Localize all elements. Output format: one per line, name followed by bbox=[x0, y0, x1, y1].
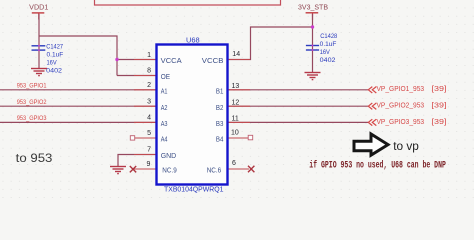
pin names right bbox=[202, 56, 224, 174]
svg-text:to 953: to 953 bbox=[16, 151, 53, 165]
svg-text:A1: A1 bbox=[161, 87, 168, 96]
svg-text:B3: B3 bbox=[216, 119, 224, 128]
off-page connector chevrons VP_GPIO3_953 bbox=[368, 119, 376, 125]
svg-text:B2: B2 bbox=[216, 103, 224, 112]
svg-text:8: 8 bbox=[147, 68, 151, 75]
pin 6 no-connect stub bbox=[228, 166, 255, 172]
ground GND2 bbox=[305, 73, 321, 80]
svg-text:13: 13 bbox=[232, 83, 240, 90]
wire: to pin 8 bbox=[117, 75, 157, 77]
svg-text:TXB0104QPWRQ1: TXB0104QPWRQ1 bbox=[164, 187, 224, 194]
svg-text:0402: 0402 bbox=[320, 57, 336, 64]
wire: 3V3_STB to U68 pin14 bbox=[228, 27, 313, 60]
svg-text:16V: 16V bbox=[320, 49, 331, 56]
wire: pin 7 to ground bbox=[118, 155, 157, 167]
svg-text:B4: B4 bbox=[216, 134, 224, 143]
value labels C1427 bbox=[46, 44, 63, 75]
svg-text:B1: B1 bbox=[216, 87, 224, 96]
node VP_GPIO2_953 wire (pin 12) bbox=[228, 105, 369, 107]
svg-text:11: 11 bbox=[232, 116, 239, 123]
capacitor C1427 bbox=[32, 45, 46, 51]
off-page connector chevrons VP_GPIO1_953 bbox=[368, 87, 376, 93]
svg-text:953_GPIO3: 953_GPIO3 bbox=[17, 115, 47, 122]
svg-text:10: 10 bbox=[231, 130, 239, 137]
svg-text:12: 12 bbox=[232, 99, 240, 106]
svg-text:VCCA: VCCA bbox=[161, 56, 182, 65]
svg-text:3: 3 bbox=[147, 99, 151, 106]
ground GND3 (pin 7) bbox=[110, 167, 126, 174]
wire: to pin 1 bbox=[117, 59, 157, 61]
svg-text:VP_GPIO3_953: VP_GPIO3_953 bbox=[377, 119, 425, 126]
svg-text:5: 5 bbox=[147, 130, 151, 137]
pin 10 no-connect stub bbox=[228, 135, 253, 140]
svg-text:[39]: [39] bbox=[432, 86, 447, 93]
wire: 3V3_STB vertical to cap and ground bbox=[312, 14, 314, 73]
wire: top-left off-sheet rectangle bbox=[95, 0, 281, 5]
wire: VDD1 vertical to cap and ground bbox=[38, 14, 40, 69]
power symbol 3V3_STB bbox=[298, 4, 328, 20]
svg-text:A2: A2 bbox=[161, 103, 168, 112]
pin numbers right bbox=[231, 51, 240, 167]
node 953_GPIO1 wire bbox=[0, 89, 157, 91]
node VP_GPIO1_953 wire (pin 13) bbox=[228, 89, 369, 91]
svg-text:VCCB: VCCB bbox=[202, 56, 224, 65]
svg-text:C1428: C1428 bbox=[320, 33, 337, 40]
svg-text:[39]: [39] bbox=[432, 119, 447, 126]
pin 5 no-connect stub bbox=[130, 136, 156, 140]
svg-text:9: 9 bbox=[146, 161, 150, 168]
wire: VDD1 to U68 pin1/pin8 bbox=[39, 36, 117, 76]
pin numbers left bbox=[146, 52, 151, 168]
svg-text:if GPIO 953 no used, U68 can b: if GPIO 953 no used, U68 can be DNP bbox=[309, 160, 446, 172]
svg-text:4: 4 bbox=[147, 115, 151, 122]
svg-text:to vp: to vp bbox=[393, 139, 419, 153]
svg-text:1: 1 bbox=[147, 52, 151, 59]
svg-text:3V3_STB: 3V3_STB bbox=[298, 4, 328, 11]
svg-text:0.1uF: 0.1uF bbox=[320, 41, 337, 48]
svg-text:A4: A4 bbox=[161, 134, 168, 143]
svg-text:OE: OE bbox=[161, 72, 170, 81]
svg-text:953_GPIO1: 953_GPIO1 bbox=[17, 83, 47, 90]
junction at pin1 branch bbox=[115, 58, 118, 61]
svg-text:6: 6 bbox=[232, 160, 236, 167]
IC U68 body bbox=[157, 45, 228, 185]
node 953_GPIO3 wire bbox=[0, 121, 157, 123]
capacitor C1428 bbox=[306, 45, 319, 51]
pin stubs (component pins, brighter red) bbox=[134, 60, 250, 155]
svg-text:0.1uF: 0.1uF bbox=[47, 52, 64, 59]
svg-text:0402: 0402 bbox=[46, 68, 62, 75]
svg-text:GND: GND bbox=[161, 151, 177, 160]
off-page connector chevrons VP_GPIO2_953 bbox=[368, 103, 376, 109]
svg-text:A3: A3 bbox=[161, 119, 168, 128]
node VP_GPIO3_953 wire (pin 11) bbox=[228, 121, 369, 123]
svg-text:14: 14 bbox=[232, 51, 240, 58]
svg-text:16V: 16V bbox=[47, 60, 58, 67]
pin 9 no-connect stub bbox=[130, 166, 157, 172]
svg-text:953_GPIO2: 953_GPIO2 bbox=[17, 99, 47, 106]
svg-text:C1427: C1427 bbox=[46, 44, 63, 51]
power symbol VDD1 bbox=[29, 5, 48, 20]
svg-text:VP_GPIO2_953: VP_GPIO2_953 bbox=[377, 103, 425, 110]
svg-text:VDD1: VDD1 bbox=[29, 5, 48, 12]
ground GND1 bbox=[31, 69, 47, 76]
node 953_GPIO2 wire bbox=[0, 105, 157, 107]
svg-text:NC.9: NC.9 bbox=[162, 165, 177, 174]
arrow to vp bbox=[354, 134, 388, 155]
svg-text:[39]: [39] bbox=[432, 103, 447, 110]
junction at 3V3 branch bbox=[311, 25, 314, 28]
svg-text:2: 2 bbox=[147, 82, 151, 89]
svg-text:U68: U68 bbox=[186, 35, 200, 44]
pin names left bbox=[161, 56, 182, 174]
value labels C1428 bbox=[320, 33, 338, 64]
svg-text:VP_GPIO1_953: VP_GPIO1_953 bbox=[377, 86, 425, 93]
svg-text:NC.6: NC.6 bbox=[207, 165, 222, 174]
svg-text:7: 7 bbox=[147, 147, 151, 154]
